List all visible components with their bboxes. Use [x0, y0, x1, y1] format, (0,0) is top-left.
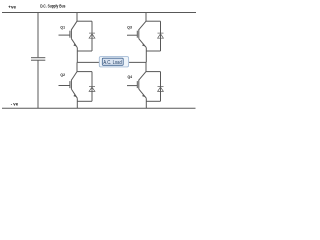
svg-text:A.C. Load: A.C. Load	[103, 60, 121, 66]
wire: +ve D.C. supply bus (top)	[2, 12, 196, 14]
diode D3 (freewheel, top-right)	[158, 33, 164, 38]
wire: Q2 loop bottom	[77, 100, 92, 102]
wire: left leg drop from top bus	[76, 13, 78, 22]
A.C. Load box (outer)	[99, 57, 128, 67]
transistor Q1 (IGBT, top-left)	[59, 21, 78, 47]
diode D4 (freewheel, bottom-right)	[158, 86, 164, 91]
svg-text:- ve: - ve	[11, 102, 19, 107]
svg-text:Q1: Q1	[60, 25, 65, 30]
wire: mid node down to Q2	[76, 62, 78, 71]
wire: right leg Q3 emitter to mid node B	[145, 48, 147, 63]
A.C. Load box (inner)	[102, 58, 123, 65]
wire: D3 branch (right side of Q3 loop)	[160, 21, 162, 51]
arrow on Q3 emitter	[142, 44, 145, 47]
svg-text:Q3: Q3	[127, 24, 132, 29]
wire: mid node B down to Q4	[145, 62, 147, 71]
arrow on Q2 emitter	[73, 94, 76, 97]
wire: Q4 loop top	[146, 71, 161, 73]
wire: Q1 loop top	[77, 20, 92, 22]
wire: Q4 loop bottom	[146, 100, 160, 102]
wire: capacitor leg to bottom bus	[37, 61, 39, 109]
wire: Q3 loop top	[146, 20, 161, 22]
svg-text:Q2: Q2	[60, 72, 65, 77]
wire: D1 branch (right side of Q1 loop)	[91, 21, 93, 51]
wire: Q2 emitter to bottom bus	[76, 98, 78, 108]
wire: Q2 loop top	[77, 71, 92, 73]
wire: left leg Q1 emitter to mid node A	[76, 48, 78, 63]
arrow on Q1 emitter	[73, 44, 76, 47]
svg-text:Q4: Q4	[128, 74, 133, 79]
capacitor C bottom plate	[31, 59, 45, 61]
wire: D2 branch (right side of Q2 loop)	[91, 72, 93, 102]
wire: D4 branch (right side of Q4 loop)	[160, 72, 162, 102]
wire: mid node to A.C. load (left)	[77, 61, 99, 63]
wire: -ve D.C. supply bus (bottom)	[2, 107, 196, 109]
capacitor C (DC link), leg from top bus	[37, 13, 39, 58]
transistor Q3 (IGBT, top-right)	[127, 21, 146, 47]
capacitor C top plate	[31, 57, 45, 59]
diode D2 (freewheel, bottom-left)	[89, 86, 95, 91]
svg-text:+ve: +ve	[8, 5, 16, 10]
wire: A.C. load to mid node B (right)	[129, 61, 146, 63]
wire: right leg drop from top bus	[145, 13, 147, 22]
wire: Q1 loop bottom	[77, 50, 92, 52]
arrow on Q4 emitter	[142, 94, 145, 97]
wire: Q3 loop bottom	[146, 50, 160, 52]
transistor Q4 (IGBT, bottom-right)	[127, 72, 146, 99]
transistor Q2 (IGBT, bottom-left)	[59, 72, 78, 99]
diode D1 (freewheel, top-left)	[89, 33, 95, 38]
svg-text:D.C. Supply Bus: D.C. Supply Bus	[40, 3, 66, 8]
wire: Q4 emitter to bottom bus	[145, 98, 147, 108]
